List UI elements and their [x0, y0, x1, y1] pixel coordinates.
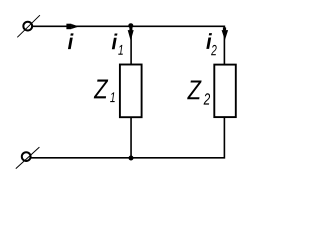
terminal T2 (bottom-left) — [16, 147, 40, 169]
terminal T1 (top-left input) — [17, 15, 40, 37]
label Z1 — [94, 80, 115, 103]
wire below Z1 — [130, 117, 132, 158]
label i — [68, 33, 74, 49]
node A (top junction dot) — [128, 23, 133, 28]
label i1 — [112, 33, 123, 54]
wire bottom horizontal with right corner up to Z2 — [31, 117, 224, 158]
label Z2 — [187, 80, 210, 104]
impedance Z2 (box) — [214, 65, 236, 118]
arrow for current i2 — [222, 27, 229, 40]
wire branch 1 vertical to Z1 — [130, 26, 132, 65]
impedance Z1 (box) — [120, 65, 142, 118]
label i2 — [206, 33, 216, 55]
node B (bottom junction dot) — [129, 156, 134, 161]
wire top horizontal with right corner down to Z2 — [33, 26, 225, 64]
arrow for current i — [66, 24, 79, 30]
arrow for current i1 — [128, 28, 134, 41]
